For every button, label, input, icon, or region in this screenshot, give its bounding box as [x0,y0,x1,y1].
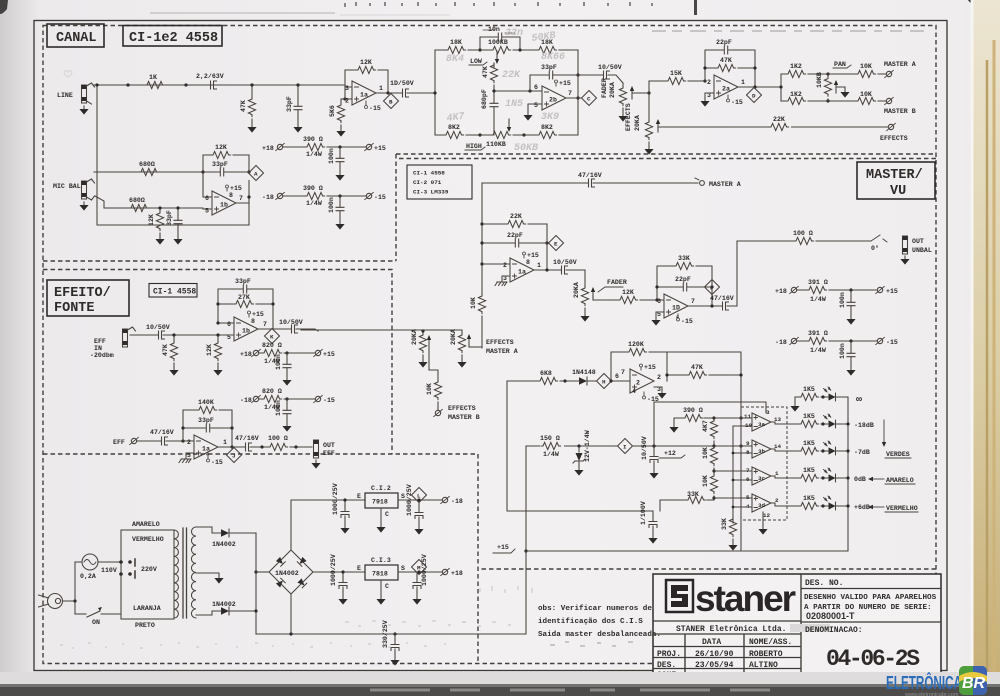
ground below U2a pin3 [700,98,709,107]
transformer T1 primary winding [174,530,178,618]
svg-text:1a: 1a [360,92,368,99]
row -18dB wire [771,422,848,424]
wire pin2 [341,98,352,100]
svg-text:1: 1 [223,439,227,446]
svg-text:390 Ω: 390 Ω [683,407,703,414]
wire pin5 to ground [528,104,542,112]
output wire U3 [258,328,285,330]
diode D1 1N4148 [572,369,596,385]
svg-text:0°: 0° [871,244,879,252]
svg-text:12K: 12K [148,214,155,226]
svg-text:2a: 2a [722,86,730,93]
svg-text:140K: 140K [198,399,214,406]
VERMELHO label with arrow [868,505,918,512]
minus bus vertical x733 [732,426,734,523]
resistor R29 47K [687,364,741,379]
svg-text:1K5: 1K5 [803,386,815,393]
wire bridge top to CI2 [291,500,365,550]
ground below C2 [293,124,302,133]
+15 label [493,544,515,553]
svg-text:12V-1/4W: 12V-1/4W [584,430,591,462]
svg-text:10K: 10K [860,63,872,70]
OUT UNBAL row [737,240,871,242]
svg-text:BR: BR [962,675,986,692]
ground below zener [574,467,583,476]
svg-text:10K: 10K [702,475,709,487]
svg-text:1D/50V: 1D/50V [390,80,414,87]
row 0dB wire [771,476,848,478]
svg-text:1N4002: 1N4002 [275,570,299,577]
potentiometer EFFECTS 20KA [625,103,660,146]
wire to 15K [649,80,705,82]
svg-text:1/4W: 1/4W [306,200,322,207]
output wire U1a [376,92,396,94]
svg-text:47K: 47K [720,57,732,64]
svg-text:E: E [357,493,361,500]
resistor R35 33K horizontal [660,491,714,511]
svg-text:-15: -15 [886,339,898,346]
svg-text:110V: 110V [101,567,117,574]
top edge mark [694,0,697,15]
svg-text:1K5: 1K5 [803,440,815,447]
svg-text:1D: 1D [672,305,680,312]
svg-text:-15: -15 [681,318,693,325]
svg-text:1K2: 1K2 [790,63,802,70]
FADER label [598,279,627,292]
svg-text:C.I.2: C.I.2 [371,485,391,492]
capacitor C12 22pF feedback [705,39,755,87]
svg-text:04-06-2S: 04-06-2S [826,646,920,672]
node C diamond [582,91,597,106]
svg-text:12K: 12K [215,144,227,151]
capacitor C24 10/50V output [279,319,303,333]
node D diamond [747,88,762,103]
svg-text:33pF: 33pF [212,161,228,168]
potentiometer 20KA effects master A left [419,331,431,359]
svg-text:+15: +15 [252,311,264,318]
smudge after Ltda [790,624,830,632]
svg-text:1K: 1K [149,74,157,81]
svg-text:47K: 47K [162,344,169,356]
ground below EFFECTS pot [644,146,653,155]
op-amp U6 1D [657,294,695,325]
svg-text:12K: 12K [360,59,372,66]
wire bus vertical [648,81,650,122]
MASTER A terminal [695,178,741,188]
selector contacts [119,559,135,578]
svg-text:100n: 100n [328,148,335,164]
capacitor C31 1000/25V output CI2 [406,484,423,526]
svg-text:330/25V: 330/25V [382,620,389,648]
op-amp U5 1a [503,252,541,282]
svg-text:1a: 1a [518,269,526,276]
svg-text:ALTINO: ALTINO [749,661,778,670]
svg-text:10K: 10K [860,91,872,98]
capacitor C8 10n bridge [480,26,520,50]
resistor R34 10K vertical [702,468,718,494]
op-amp U2b [534,80,572,110]
capacitor C1 2,2/63V [196,73,224,89]
svg-text:10/50V: 10/50V [598,64,622,71]
svg-text:8K66: 8K66 [541,52,565,63]
MASTER/VU title box [857,162,935,199]
svg-text:22K: 22K [510,213,522,220]
resistor R3 5K6 vertical [329,99,345,128]
resistor R31 390Ω [683,407,703,422]
ground below C19 [846,367,855,376]
ground below 3d [758,512,767,535]
CANAL section dashed divider vertical [395,154,397,261]
ground below R7 [155,236,164,245]
svg-text:47/16V: 47/16V [235,435,259,442]
svg-text:C: C [385,583,389,590]
row infinity: resistor 1K5 [795,386,848,401]
wire EQ left vertical [434,50,436,135]
svg-text:CI-2 071: CI-2 071 [413,179,442,186]
svg-text:0dB: 0dB [854,476,866,483]
wire 390 to comparators [674,417,741,419]
wire to EQ [412,92,435,94]
mains plug [39,594,63,609]
EFF return input [113,437,194,446]
svg-text:OUT: OUT [912,238,924,245]
svg-text:1N4002: 1N4002 [212,601,236,608]
svg-text:5: 5 [227,334,231,341]
svg-text:MASTER/: MASTER/ [866,168,923,183]
capacitor C21 1/100V [640,501,657,535]
ground U6 pin5 [651,317,660,326]
svg-text:10/50V: 10/50V [641,436,648,460]
switch ON [75,607,121,626]
svg-text:7: 7 [691,298,695,305]
wire pin3 to ground [186,453,194,456]
resistor R16 47K feedback [705,57,755,72]
faint top scan line [150,12,335,14]
HIGH label [465,143,485,150]
output wire CI2 [398,499,442,501]
switch 0° [871,235,887,252]
wire comparator supply [654,352,766,551]
svg-text:HIGH: HIGH [466,143,482,150]
svg-text:S: S [401,565,405,572]
svg-text:D: D [752,93,756,100]
output wire CI3 [398,571,442,573]
svg-text:-18: -18 [240,397,252,404]
svg-text:7: 7 [568,90,572,97]
svg-text:obs: Verificar numeros de: obs: Verificar numeros de [538,605,652,613]
svg-text:DES.: DES. [657,661,676,670]
svg-text:6: 6 [205,195,209,202]
svg-text:8K2: 8K2 [541,124,553,131]
wire pin3 to ground [502,276,510,279]
svg-text:8: 8 [251,318,255,325]
svg-text:3c: 3c [758,475,766,482]
svg-text:12: 12 [763,512,771,519]
svg-text:47K: 47K [240,100,247,112]
svg-text:4: 4 [632,388,636,395]
resistor R36 33K vertical [721,517,737,542]
ground below R2 [247,124,256,133]
resistor R22 12K [604,289,664,304]
capacitor C14 22pF feedback [482,232,547,247]
transformer secondary winding [191,527,196,618]
svg-text:100n: 100n [275,400,282,416]
AMARELO label with arrow [868,477,915,484]
ground below C21 [648,535,657,544]
svg-text:∞: ∞ [856,395,862,406]
svg-text:47K: 47K [691,364,703,371]
ground below C31 [414,526,423,535]
svg-text:1N4148: 1N4148 [572,369,596,376]
svg-text:staner: staner [695,578,796,619]
resistor R24 33K feedback [657,255,712,306]
wire to effects master pots [301,329,318,331]
resistor R41 100Ω [268,435,288,451]
svg-text:1/100V: 1/100V [640,501,647,525]
resistor R18 1K2 [781,91,828,105]
node dot [126,83,129,86]
resistor R26 10K vertical [426,380,442,410]
capacitor C16 22pF feedback [657,276,712,291]
ground below C30 [340,525,349,534]
wire fader wiper to bus [632,92,649,94]
ground below R3 [336,128,345,137]
svg-text:C: C [385,511,389,518]
svg-text:LOW: LOW [470,58,482,65]
svg-text:33K: 33K [687,491,699,498]
svg-text:-15: -15 [211,459,223,466]
resistor R28 120K feedback [611,341,667,381]
svg-text:PRETO: PRETO [135,622,155,629]
svg-text:10K: 10K [702,447,709,459]
svg-text:VERDES: VERDES [886,451,910,458]
EFEITO/FONTE section dashed box [43,270,392,455]
LED return bus [847,397,849,551]
resistor R23 10K vertical [470,294,486,348]
node dot [184,83,187,86]
wire plug to source [63,562,76,614]
svg-text:DESENHO VALIDO PARA APARELHOS: DESENHO VALIDO PARA APARELHOS [804,594,937,602]
svg-text:1000/25V: 1000/25V [330,554,337,586]
svg-text:5: 5 [534,102,538,109]
svg-text:391 Ω: 391 Ω [808,279,828,286]
svg-text:LINE: LINE [57,92,73,99]
svg-text:+12: +12 [664,450,676,457]
ground below LINE jack [79,106,88,115]
output wire U6 [688,305,716,307]
svg-text:2: 2 [636,380,640,387]
svg-text:-15: -15 [323,397,335,404]
wire output vertical x737 [732,241,737,306]
ground below C7 [335,221,344,230]
wire source to selector [75,561,121,563]
wire master bus vertical x482 [481,183,483,294]
output -18 [441,496,463,505]
svg-text:+15: +15 [886,288,898,295]
svg-text:33K: 33K [721,518,728,530]
svg-text:+15: +15 [559,80,571,87]
svg-text:100KB: 100KB [488,39,508,46]
svg-text:1: 1 [537,262,541,269]
bridge rectifier B1 1N4002 [269,550,313,594]
svg-text:1b: 1b [242,328,250,335]
resistor R13 8K2 [524,124,578,139]
svg-text:8K4: 8K4 [446,54,464,65]
svg-text:10K: 10K [426,383,433,395]
right page-edge tan band [972,0,1000,696]
svg-text:22K: 22K [773,116,785,123]
svg-text:-15: -15 [369,105,381,112]
top-right corner dark patch [968,0,1000,26]
output MASTER B [884,97,916,115]
node K diamond [265,329,280,344]
resistor R11 47K vertical [482,63,498,83]
+18 to +15 supply row [262,136,386,158]
svg-text:47/16V: 47/16V [578,172,602,179]
svg-text:1/4W: 1/4W [306,151,322,158]
ground below pot [457,359,466,368]
potentiometer FADER 20KA [601,78,649,113]
svg-text:CI-1 4558: CI-1 4558 [153,288,196,297]
capacitor C7 100n [328,196,344,221]
ground below C6 [335,172,344,181]
ground below U2b pin5 [523,112,532,121]
svg-text:150 Ω: 150 Ω [540,435,560,442]
output wire U2b [566,97,581,99]
svg-text:EFF: EFF [94,338,106,345]
-18 to -15 master row [775,330,898,354]
svg-text:47K: 47K [482,66,489,78]
svg-text:E: E [357,565,361,572]
svg-text:C.I.3: C.I.3 [371,557,391,564]
wire rectifier join vertical [255,533,257,634]
handwritten notes pencil [446,28,565,154]
svg-text:1: 1 [775,470,779,477]
svg-text:-15: -15 [731,99,743,106]
svg-text:33pF: 33pF [286,96,293,112]
wire EQ right vertical [577,50,579,135]
capacitor C9 680pF vertical [481,85,498,135]
node E diamond [549,236,564,251]
svg-text:100 Ω: 100 Ω [793,230,813,237]
svg-text:MASTER A: MASTER A [709,181,741,188]
svg-text:+15: +15 [230,185,242,192]
diode D7 1N4002 [212,529,236,548]
svg-text:+15: +15 [527,252,539,259]
svg-text:FONTE: FONTE [54,301,95,316]
drawing validity note [804,594,937,621]
potentiometer PAN 10KB [816,72,845,101]
svg-text:680Ω: 680Ω [139,161,155,168]
svg-text:2: 2 [503,262,507,269]
output EFFECTS MASTER B [434,405,480,421]
svg-text:3d: 3d [758,502,766,509]
wire bridge right to CI3 [313,571,365,573]
resistor R19 10K [828,63,886,78]
svg-text:FADER: FADER [607,279,627,286]
svg-text:NOME/ASS.: NOME/ASS. [749,638,792,647]
transformer core [183,528,187,618]
wire to fader2 [571,270,585,286]
resistor R15 22K [769,116,791,133]
wire EFF IN y335 [130,334,234,336]
svg-text:I: I [623,444,627,451]
svg-text:680pF: 680pF [481,89,488,109]
wire wiper to 10K [429,348,438,380]
svg-text:220V: 220V [141,566,157,573]
svg-text:1K5: 1K5 [803,467,815,474]
svg-text:26/10/90: 26/10/90 [695,650,734,659]
svg-text:1b: 1b [220,202,228,209]
wire LINE main y85 [94,84,345,86]
svg-text:F: F [710,285,714,292]
svg-text:1/4W: 1/4W [543,451,559,458]
output wire U5 [534,269,555,271]
resistor R10 18K [524,39,578,54]
svg-text:7818: 7818 [372,571,388,578]
svg-text:DENOMINACAO:: DENOMINACAO: [805,626,863,635]
svg-text:22n: 22n [505,28,523,39]
svg-text:23/05/94: 23/05/94 [695,661,734,670]
row DES [657,661,778,670]
svg-text:PAN: PAN [834,61,846,68]
MASTER/VU section dashed box [399,159,936,570]
capacitor C22 10/50V [146,324,170,339]
svg-text:identificação dos C.I.S: identificação dos C.I.S [538,618,643,626]
LED D5 [824,468,840,482]
resistor R2 47K vertical [240,85,256,124]
0V bus [256,633,526,635]
svg-text:100n: 100n [839,343,846,359]
wire mic top y172 [94,172,212,197]
svg-text:02080001-T: 02080001-T [806,611,855,621]
jack J1 LINE [57,83,95,104]
svg-text:3K9: 3K9 [541,112,559,123]
svg-text:6K8: 6K8 [540,370,552,377]
potentiometer FADER2 20KA [573,282,604,313]
svg-text:2,2/63V: 2,2/63V [196,73,224,80]
output wire U7 to 47K [667,375,687,381]
svg-text:1000/25V: 1000/25V [406,484,413,516]
CANAL section bottom dashed line right [396,153,936,155]
svg-text:390 Ω: 390 Ω [303,185,323,192]
regulator CI3 7818 [357,557,405,590]
svg-text:10/50V: 10/50V [146,324,170,331]
svg-text:-7dB: -7dB [854,449,870,456]
svg-text:100n: 100n [328,197,335,213]
resistor R37 47K vertical [162,335,178,367]
capacitor C33 1000/25V output CI3 [413,554,428,596]
AC source 0,2A [80,554,98,580]
svg-text:+18: +18 [240,351,252,358]
svg-text:EFEITO/: EFEITO/ [54,286,111,301]
capacitor C2 33pF vertical [286,85,302,124]
svg-text:100 Ω: 100 Ω [268,435,288,442]
comparator input wires [714,418,752,507]
node H diamond [597,374,612,389]
svg-text:2: 2 [345,98,349,105]
bottom dark band [0,684,1000,696]
svg-text:EFFECTS: EFFECTS [448,405,476,412]
svg-text:7: 7 [239,195,243,202]
svg-text:8: 8 [526,259,530,266]
svg-text:3: 3 [345,85,349,92]
svg-text:12K: 12K [622,289,634,296]
capacitor C6 100n [328,147,344,172]
svg-text:1K2: 1K2 [790,91,802,98]
output wire U1b [236,181,249,204]
svg-text:MASTER A: MASTER A [486,348,518,355]
